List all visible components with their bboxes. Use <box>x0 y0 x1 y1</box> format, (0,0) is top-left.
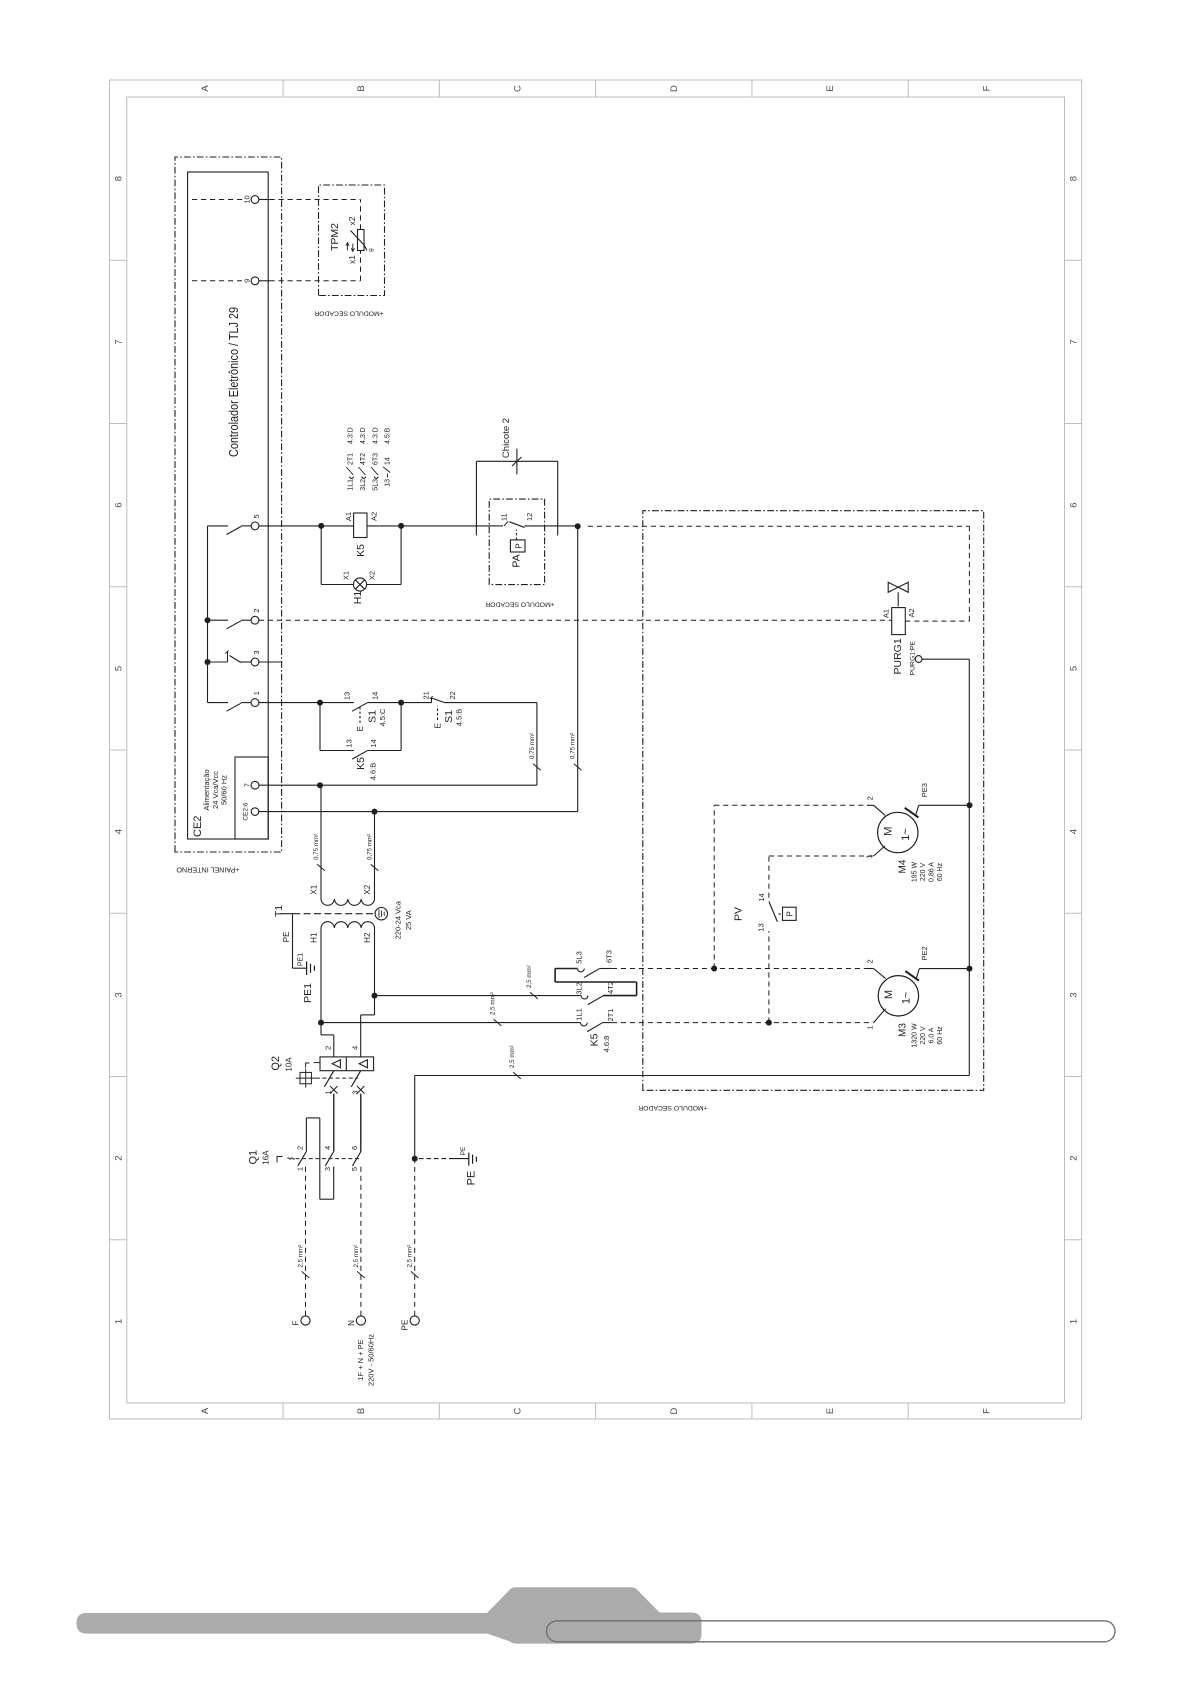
svg-text:PURG1: PURG1 <box>892 638 904 674</box>
svg-text:A2: A2 <box>907 608 916 617</box>
wire K5 coil to PA <box>367 525 489 527</box>
svg-text:M3: M3 <box>898 1023 909 1037</box>
marker 2,5mm2 F <box>302 1271 310 1278</box>
svg-text:7: 7 <box>243 783 252 787</box>
module box TPM2 +MODULO SECADOR <box>319 185 385 296</box>
svg-text:21: 21 <box>421 691 430 699</box>
svg-text:2: 2 <box>252 609 261 613</box>
svg-text:B: B <box>356 1408 367 1414</box>
svg-text:4: 4 <box>350 1046 359 1050</box>
svg-text:+PAINEL INTERNO: +PAINEL INTERNO <box>176 866 240 875</box>
svg-text:1F + N + PE: 1F + N + PE <box>356 1339 365 1380</box>
svg-text:PE1: PE1 <box>298 953 305 966</box>
svg-text:Q2: Q2 <box>270 1056 282 1071</box>
junction X1 supply <box>317 782 323 788</box>
svg-text:3: 3 <box>1069 992 1080 997</box>
svg-text:4.5:B: 4.5:B <box>455 709 464 727</box>
svg-text:C: C <box>513 1407 524 1414</box>
svg-text:4.3:D: 4.3:D <box>348 427 355 444</box>
svg-text:2: 2 <box>866 796 875 800</box>
K5 aux contact 13-14 (4.6:B) <box>319 703 321 751</box>
svg-text:5L3: 5L3 <box>575 951 584 964</box>
internal contact to terminal 3 <box>205 659 211 665</box>
svg-text:1: 1 <box>296 1167 305 1171</box>
marker 0,75mm2 CE2:6 wire <box>574 764 582 771</box>
svg-text:Controlador Eletrônico / TLJ 2: Controlador Eletrônico / TLJ 29 <box>227 307 241 457</box>
svg-text:F: F <box>981 1408 992 1414</box>
svg-text:6: 6 <box>1069 502 1080 507</box>
svg-text:1: 1 <box>114 1319 125 1324</box>
junction PE3 <box>967 802 973 808</box>
junction X2 <box>372 809 378 815</box>
ground symbol PE <box>468 1153 470 1166</box>
svg-text:E: E <box>434 723 443 728</box>
svg-text:16A: 16A <box>261 1150 270 1165</box>
svg-text:5L3: 5L3 <box>372 479 379 491</box>
svg-text:3L2: 3L2 <box>360 479 367 491</box>
drawing frame <box>110 80 1082 1419</box>
lamp branch wire right <box>400 527 402 585</box>
P element of PV <box>783 907 797 920</box>
svg-text:4: 4 <box>114 829 125 834</box>
svg-text:E: E <box>825 1408 836 1414</box>
junction 1L1 row <box>318 1020 324 1026</box>
controller box CE2 Controlador Eletronico TLJ 29 <box>188 172 269 839</box>
svg-text:F: F <box>981 85 992 91</box>
PE ground branch <box>419 1158 452 1160</box>
svg-text:9: 9 <box>243 279 252 283</box>
junction PE2 <box>967 966 973 972</box>
junction 3L2 row <box>372 993 378 999</box>
K5 aux wires <box>320 750 354 752</box>
svg-text:50/60 Hz: 50/60 Hz <box>220 775 229 805</box>
junction H1 branch <box>318 523 324 529</box>
svg-text:X1: X1 <box>310 884 319 894</box>
harness bracket Chicote 2 <box>475 461 477 535</box>
svg-text:1320 W: 1320 W <box>912 1023 919 1048</box>
marker 2,5mm2 1L1 <box>494 1019 502 1026</box>
svg-text:2: 2 <box>296 1146 305 1150</box>
lamp branch wire left <box>320 526 322 585</box>
svg-text:A: A <box>200 85 211 92</box>
svg-text:S1: S1 <box>366 710 378 723</box>
CE2 power sub-box <box>235 757 268 839</box>
wire terminal 2 row (to PURG1 A1) <box>259 619 892 621</box>
ground PE1 of T1 <box>306 962 308 976</box>
svg-text:12: 12 <box>525 513 534 521</box>
svg-text:PE1: PE1 <box>302 983 314 1003</box>
svg-text:5: 5 <box>252 514 261 518</box>
svg-text:1L1: 1L1 <box>348 479 355 491</box>
svg-text:PE3: PE3 <box>920 783 929 797</box>
wire 4T2 to 5L3 series loop <box>603 995 637 997</box>
svg-text:PA: PA <box>511 554 523 567</box>
T1 earth terminal <box>375 908 387 920</box>
svg-text:14: 14 <box>370 692 379 700</box>
S1-2 actuator link <box>437 706 439 720</box>
wire 6T3 solid stub <box>599 968 612 970</box>
svg-text:1: 1 <box>865 855 874 859</box>
internal contact to terminal 1 <box>208 702 229 704</box>
M3 PE2 lead <box>916 969 919 980</box>
svg-text:A2: A2 <box>370 512 379 521</box>
svg-text:14: 14 <box>757 893 766 901</box>
svg-text:E: E <box>825 85 836 91</box>
input terminal PE <box>410 1316 419 1325</box>
enclosure box +PAINEL INTERNO <box>175 157 282 852</box>
wire thermistor to terminal 9 <box>360 251 362 281</box>
svg-text:4.3:D: 4.3:D <box>360 427 367 444</box>
wire X2 to CE2:6 circuit <box>374 812 376 899</box>
svg-text:8: 8 <box>114 176 125 181</box>
svg-text:3: 3 <box>114 992 125 997</box>
controller internal bus <box>207 526 209 703</box>
svg-text:6,0 A: 6,0 A <box>928 1027 935 1043</box>
svg-text:+MODULO SECADOR: +MODULO SECADOR <box>314 310 383 317</box>
svg-text:2,5 mm²: 2,5 mm² <box>509 1045 516 1068</box>
wire F to Q1 <box>305 1167 307 1316</box>
svg-text:PE: PE <box>460 1146 467 1155</box>
svg-text:K5: K5 <box>355 757 367 770</box>
svg-text:0,75 mm²: 0,75 mm² <box>529 733 536 759</box>
svg-text:K5: K5 <box>589 1033 601 1046</box>
M3 terminal 1 lead <box>874 1009 886 1023</box>
svg-text:8: 8 <box>1069 176 1080 181</box>
svg-text:4.5:B: 4.5:B <box>385 427 392 444</box>
svg-text:P: P <box>786 911 795 916</box>
controller terminal 3 <box>251 658 259 666</box>
junction CE2:6 / purge branch <box>575 523 581 529</box>
relay coil K5 <box>354 513 367 538</box>
svg-text:10: 10 <box>243 195 252 203</box>
svg-text:K5: K5 <box>355 544 367 557</box>
wire H1 to Q2 <box>320 928 322 1023</box>
wire 1L1 row <box>321 1022 581 1024</box>
wire 2T1 solid stub <box>602 1022 612 1024</box>
PV link to P <box>778 913 782 915</box>
svg-text:PE: PE <box>401 1320 410 1331</box>
marker 2,5mm2 N <box>357 1271 365 1278</box>
wire N to Q1 <box>360 1167 362 1316</box>
Q1 pole2 top lead <box>333 1094 335 1152</box>
wire A2 branch from junction <box>588 525 970 527</box>
svg-text:1~: 1~ <box>900 828 912 841</box>
controller terminal CE2:6 <box>251 808 259 816</box>
svg-text:A1: A1 <box>882 609 891 618</box>
svg-text:P: P <box>515 543 524 548</box>
wire terminal 10 to TPM2 <box>259 199 270 201</box>
junction S1/K5aux right <box>398 700 404 706</box>
bottom gray handle graphic <box>77 1587 702 1643</box>
svg-text:A1: A1 <box>344 512 353 521</box>
svg-text:4.3:D: 4.3:D <box>372 427 379 444</box>
svg-text:θ: θ <box>369 248 376 252</box>
svg-text:B: B <box>356 85 367 91</box>
svg-text:T1: T1 <box>273 905 285 917</box>
svg-text:D: D <box>669 1407 680 1414</box>
svg-text:+MODULO SECADOR: +MODULO SECADOR <box>485 601 554 608</box>
wire 6T3 dashed to M3 terminal 2 <box>612 968 867 970</box>
junction lamp branch <box>398 523 404 529</box>
wire terminal 3 stub <box>259 661 283 663</box>
lamp H1 <box>321 584 353 586</box>
svg-text:220-24 Vca: 220-24 Vca <box>394 900 403 939</box>
transformer T1 secondary winding <box>321 899 375 905</box>
svg-text:6: 6 <box>114 502 125 507</box>
svg-text:2: 2 <box>323 1046 332 1050</box>
wire terminal 9 row <box>259 280 270 282</box>
svg-text:14: 14 <box>369 739 378 747</box>
pressure switch box PA <box>489 499 544 585</box>
svg-text:PE: PE <box>282 932 291 943</box>
Q1 series jumper pole1-pole3 <box>305 1118 307 1152</box>
motor M4 <box>878 812 918 852</box>
M4 terminal 1 lead <box>874 846 885 856</box>
svg-text:25 VA: 25 VA <box>404 910 413 930</box>
svg-text:Chicote 2: Chicote 2 <box>501 418 512 458</box>
marker 0,75mm2 X1 <box>317 864 325 871</box>
svg-text:13: 13 <box>757 923 766 931</box>
svg-text:220V - 50/60Hz: 220V - 50/60Hz <box>366 1334 375 1386</box>
solenoid valve PURG1 <box>892 608 906 635</box>
wire PA to junction <box>489 525 503 527</box>
svg-text:13: 13 <box>343 692 352 700</box>
Q1 mechanism link <box>296 1158 362 1160</box>
Q2 pole 1 contact <box>324 1071 333 1087</box>
svg-text:PE2: PE2 <box>920 946 929 960</box>
controller terminal 1 <box>251 699 259 707</box>
svg-text:2,5 mm²: 2,5 mm² <box>407 1245 414 1268</box>
S1 actuator link <box>359 707 361 723</box>
wire X1 to S1 circuit <box>320 785 322 899</box>
svg-text:5: 5 <box>350 1167 359 1171</box>
svg-text:+MODULO SECADOR: +MODULO SECADOR <box>638 1104 707 1111</box>
svg-text:5: 5 <box>1069 666 1080 671</box>
svg-text:220 V: 220 V <box>920 1026 927 1045</box>
svg-text:2T1: 2T1 <box>606 1009 615 1022</box>
Q2 mechanism <box>300 1072 311 1083</box>
svg-text:4: 4 <box>323 1146 332 1150</box>
svg-text:S1: S1 <box>443 710 455 723</box>
svg-text:TPM2: TPM2 <box>329 223 341 251</box>
marker 2,5mm2 PE <box>411 1271 419 1278</box>
svg-text:3: 3 <box>252 650 261 654</box>
junction PE <box>412 1156 418 1162</box>
wire terminal 1 row <box>259 702 354 704</box>
arrows <box>346 243 355 252</box>
wire 3L2 row <box>375 995 582 997</box>
wire CE2:6 to coil circuit <box>577 526 579 811</box>
svg-text:M: M <box>883 990 895 999</box>
M4 terminal 2 lead <box>874 805 886 815</box>
marker 2,5mm2 3L2 <box>530 992 538 999</box>
svg-text:A: A <box>200 1407 211 1414</box>
controller terminal 10 <box>251 196 259 204</box>
svg-text:1~: 1~ <box>901 992 913 1005</box>
internal dashed stub terminal 9 <box>192 280 242 282</box>
svg-text:1L1: 1L1 <box>575 1008 584 1021</box>
outlined slider bar <box>547 1621 1116 1642</box>
svg-text:F: F <box>292 1320 301 1325</box>
svg-text:13: 13 <box>385 479 392 487</box>
svg-text:2,5 mm²: 2,5 mm² <box>298 1245 305 1268</box>
svg-text:2,5 mm²: 2,5 mm² <box>526 965 533 988</box>
svg-text:2: 2 <box>866 959 875 963</box>
svg-text:60 Hz: 60 Hz <box>937 862 944 881</box>
junction M4 branch <box>711 966 717 972</box>
input terminal F <box>301 1316 310 1325</box>
controller terminal 5 <box>251 522 259 530</box>
svg-text:6T3: 6T3 <box>372 453 379 465</box>
svg-text:3L2: 3L2 <box>575 982 584 995</box>
svg-text:M: M <box>883 827 895 836</box>
svg-text:X1: X1 <box>342 571 351 580</box>
svg-text:195 W: 195 W <box>912 861 919 882</box>
controller terminal 7 <box>251 781 259 789</box>
svg-text:CE2: CE2 <box>192 816 204 837</box>
svg-text:1: 1 <box>1069 1319 1080 1324</box>
marker 2,5mm2 PE bus <box>513 1072 521 1079</box>
svg-text:7: 7 <box>114 339 125 344</box>
svg-text:x1: x1 <box>347 255 357 264</box>
svg-text:2: 2 <box>1069 1155 1080 1160</box>
svg-text:2,5 mm²: 2,5 mm² <box>353 1245 360 1268</box>
enclosure box +MODULO SECADOR <box>643 511 984 1091</box>
svg-text:H1: H1 <box>310 932 319 943</box>
svg-text:PE: PE <box>466 1171 478 1186</box>
input terminal N <box>356 1316 365 1325</box>
wire terminal 7 row <box>259 784 537 786</box>
T1 PE branch <box>281 913 293 915</box>
svg-text:0,86 A: 0,86 A <box>928 862 935 882</box>
svg-text:0,75 mm²: 0,75 mm² <box>367 834 374 860</box>
wire PV to M4 terminal 1 <box>769 855 874 857</box>
T1 core <box>293 913 374 915</box>
svg-text:1: 1 <box>252 691 261 695</box>
svg-text:E: E <box>356 726 365 731</box>
motor M3 <box>878 976 918 1016</box>
svg-text:0,75 mm²: 0,75 mm² <box>570 733 577 759</box>
svg-text:N: N <box>347 1320 356 1326</box>
wire terminal CE2:6 row <box>259 811 578 813</box>
wire TPM2 top <box>360 200 362 230</box>
junction PV branch <box>766 1020 772 1026</box>
M3 terminal 2 lead <box>874 969 886 979</box>
Q2 pole 2 contact <box>351 1071 360 1087</box>
svg-text:22: 22 <box>448 691 457 699</box>
wire M4 branch horizontal <box>713 805 715 968</box>
svg-text:H2: H2 <box>363 932 372 943</box>
svg-text:2: 2 <box>114 1155 125 1160</box>
svg-text:4T2: 4T2 <box>606 981 615 994</box>
M4 PE3 lead <box>915 805 918 816</box>
svg-text:5: 5 <box>114 666 125 671</box>
svg-text:H1: H1 <box>352 591 364 605</box>
wire S1 to terminal 7 riser <box>536 703 538 786</box>
Q1 actuator <box>277 1157 283 1163</box>
svg-text:x2: x2 <box>347 216 357 225</box>
internal contact to terminal 5 <box>208 525 229 527</box>
junction X1/K5aux <box>317 700 323 706</box>
thermistor TPM2 <box>358 230 365 251</box>
svg-text:4.6:8: 4.6:8 <box>602 1036 611 1053</box>
svg-text:4.6:B: 4.6:B <box>368 763 377 781</box>
valve symbol <box>888 582 898 592</box>
svg-text:X2: X2 <box>363 884 372 894</box>
wire 2T1 dashed to M3 <box>612 1022 874 1024</box>
breaker Q2 10A <box>320 1057 374 1071</box>
svg-text:6T3: 6T3 <box>605 950 614 963</box>
svg-text:220 V: 220 V <box>920 863 927 882</box>
controller terminal 2 <box>251 616 259 624</box>
svg-text:4.5:C: 4.5:C <box>378 708 387 727</box>
wire PE input <box>414 1159 416 1316</box>
svg-text:60 Hz: 60 Hz <box>937 1026 944 1045</box>
internal dashed stub terminal 10 <box>192 199 242 201</box>
svg-text:1: 1 <box>866 1026 875 1030</box>
internal contact to terminal 2 <box>205 617 211 623</box>
svg-text:7: 7 <box>1069 339 1080 344</box>
wire H2 to Q2 <box>374 928 376 996</box>
svg-text:13: 13 <box>345 739 354 747</box>
svg-text:4T2: 4T2 <box>360 453 367 465</box>
wire PV branch <box>768 931 770 1023</box>
PA link to P <box>515 530 517 540</box>
marker 0,75mm2 X2 <box>371 864 379 871</box>
PURG1 PE wire <box>922 658 969 660</box>
svg-text:Alimentação: Alimentação <box>202 769 211 810</box>
controller terminal 9 <box>251 277 259 285</box>
wire M4 branch down <box>714 804 867 806</box>
transformer T1 primary winding <box>321 922 375 928</box>
svg-text:X2: X2 <box>368 571 377 580</box>
svg-text:11: 11 <box>500 513 509 521</box>
Q1 pole3 top lead <box>360 1094 362 1152</box>
svg-text:CE2:6: CE2:6 <box>243 802 250 820</box>
marker 0,75mm2 S1 wire <box>533 764 541 771</box>
svg-text:M4: M4 <box>898 859 909 873</box>
svg-text:Q1: Q1 <box>247 1150 259 1165</box>
svg-text:6: 6 <box>350 1146 359 1150</box>
svg-text:10A: 10A <box>285 1057 294 1072</box>
PE riser to PE bus <box>414 1076 416 1159</box>
svg-text:3: 3 <box>323 1167 332 1171</box>
P element of PA <box>510 540 525 552</box>
svg-text:2T1: 2T1 <box>348 453 355 465</box>
svg-text:C: C <box>513 85 524 92</box>
svg-text:0,75 mm²: 0,75 mm² <box>313 834 320 860</box>
wire terminal 5 to K5 coil <box>259 525 354 527</box>
svg-text:D: D <box>669 85 680 92</box>
svg-text:14: 14 <box>385 457 392 465</box>
svg-text:PV: PV <box>733 907 745 921</box>
svg-text:4: 4 <box>1069 829 1080 834</box>
